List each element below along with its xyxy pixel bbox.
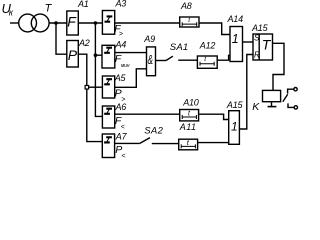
switch SA1 blade	[166, 56, 173, 60]
block A4	[102, 45, 115, 68]
svg-text:A2: A2	[78, 38, 90, 48]
wire transformer to junction	[49, 22, 67, 24]
symbol relay characteristic in A7	[104, 136, 112, 143]
svg-text:>: >	[119, 31, 123, 38]
wire A7 out to switch SA2	[115, 142, 140, 144]
block A3	[102, 11, 114, 35]
svg-text:&: &	[148, 53, 153, 67]
relay coil K	[263, 90, 281, 101]
wire A4 out to A9	[115, 52, 147, 54]
svg-text:A10: A10	[182, 97, 199, 107]
block A14 OR gate	[230, 27, 243, 62]
wire A3 out to A8	[115, 22, 180, 24]
svg-text:мин: мин	[121, 63, 130, 69]
block A15 OR gate bottom	[229, 111, 240, 145]
svg-text:A15: A15	[226, 100, 244, 110]
svg-text:t: t	[188, 17, 191, 24]
symbol relay characteristic in A5	[104, 78, 112, 85]
svg-text:SA1: SA1	[170, 42, 189, 53]
svg-text:A12: A12	[199, 40, 216, 50]
time symbol in A8	[182, 22, 197, 26]
symbol relay characteristic in A6	[104, 108, 112, 115]
wire A2 output P bus	[78, 54, 102, 141]
block A1	[67, 11, 79, 35]
coil bottom stub	[271, 102, 273, 107]
svg-text:S: S	[254, 34, 260, 43]
svg-text:A9: A9	[143, 34, 155, 44]
coil bottom bar	[268, 106, 277, 108]
transformer T	[19, 14, 37, 32]
wire A10 out to OR gate	[199, 114, 229, 119]
block A2	[67, 41, 79, 68]
svg-text:<: <	[121, 124, 125, 131]
svg-text:K: K	[252, 101, 260, 113]
block A8 time element	[180, 17, 199, 27]
svg-text:t: t	[204, 56, 207, 63]
block A7	[102, 134, 114, 158]
svg-text:к: к	[9, 7, 14, 17]
time symbol in A10	[182, 115, 196, 119]
svg-text:A4: A4	[115, 40, 127, 50]
block A10 time element	[180, 110, 199, 121]
block A9 AND gate	[147, 47, 156, 76]
svg-text:A7: A7	[115, 131, 128, 141]
wire junction down to A2 input	[56, 23, 67, 54]
block A5	[102, 76, 114, 98]
block A6	[102, 106, 114, 128]
wire A5 tap	[87, 86, 103, 88]
svg-text:<: <	[121, 153, 125, 160]
block A15 RS trigger	[253, 34, 273, 60]
wire A14 out to A15 S input	[243, 41, 254, 43]
node Uk input wire	[10, 22, 19, 24]
svg-text:A11: A11	[179, 122, 197, 132]
wire A6 out to A10	[114, 113, 180, 115]
wire R input from OR below	[239, 55, 253, 130]
svg-text:t: t	[188, 111, 191, 118]
svg-text:R: R	[254, 51, 260, 60]
svg-text:A1: A1	[77, 0, 89, 9]
svg-text:A5: A5	[114, 73, 127, 83]
wire A8 out to A14 top input	[199, 23, 230, 35]
contact K top terminal	[288, 89, 294, 93]
junction A5 tap	[85, 86, 89, 90]
wire A9 out to switch SA1	[156, 60, 167, 62]
contact K bottom terminal	[288, 103, 294, 107]
wire vertical F bus	[95, 23, 102, 116]
wire SA1 to A12	[178, 59, 197, 61]
symbol relay characteristic in A3	[105, 15, 113, 22]
contact K blade	[283, 94, 288, 102]
svg-text:A15: A15	[251, 23, 269, 33]
wire A12 out to A14 bottom input	[217, 55, 230, 60]
svg-text:A8: A8	[180, 1, 192, 11]
svg-text:SA2: SA2	[144, 126, 163, 137]
svg-text:t: t	[187, 140, 190, 147]
divider A15	[258, 34, 260, 60]
svg-text:A3: A3	[115, 0, 127, 9]
svg-text:T: T	[262, 36, 272, 52]
block A12 time element	[197, 56, 217, 68]
svg-text:F: F	[67, 14, 77, 30]
wire A15 out to relay coil	[273, 43, 285, 90]
wire SA2 to A11	[152, 143, 179, 145]
wire A1 output to A3	[78, 22, 102, 24]
time symbol in A12	[200, 62, 214, 66]
time symbol in A11	[181, 144, 195, 148]
svg-text:P: P	[68, 47, 78, 63]
svg-text:A6: A6	[115, 102, 127, 112]
junction after transformer	[54, 21, 58, 25]
junction A1 output	[94, 21, 98, 25]
junction A4 tap	[94, 53, 98, 57]
wire A4 tap	[95, 54, 102, 56]
wire A5 out to A9	[114, 69, 146, 88]
svg-text:A14: A14	[227, 14, 244, 24]
svg-text:T: T	[45, 3, 53, 15]
wire A11 out to OR gate	[198, 142, 229, 144]
symbol relay characteristic in A4	[104, 47, 112, 54]
svg-text:1: 1	[232, 32, 239, 46]
block A11 time element	[179, 139, 198, 150]
svg-text:1: 1	[231, 119, 237, 133]
switch SA2 blade	[140, 138, 150, 144]
